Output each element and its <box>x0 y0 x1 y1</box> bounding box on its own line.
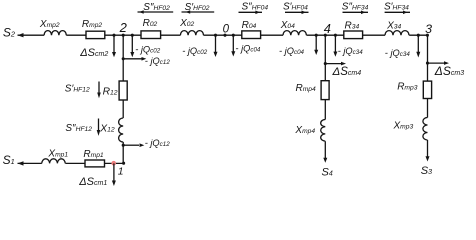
svg-text:Xmp4: Xmp4 <box>294 125 315 136</box>
resistor R12 <box>103 81 128 100</box>
wire: node 3 vertical branch <box>427 35 429 157</box>
node T junction c12 lower <box>122 144 125 147</box>
svg-text:- jQc02: - jQc02 <box>182 46 208 56</box>
arrow -jQc02 at node 0 end <box>182 34 217 57</box>
svg-text:Rmp3: Rmp3 <box>397 81 418 92</box>
label S''HF02 with left arrow <box>138 2 174 14</box>
node S3 load arrow <box>421 156 432 177</box>
svg-text:ΔScm2: ΔScm2 <box>79 47 108 59</box>
node 0 <box>223 23 230 36</box>
svg-text:R02: R02 <box>143 18 158 29</box>
label S''HF34 with right arrow <box>342 2 369 14</box>
svg-text:4: 4 <box>324 21 331 36</box>
arrow dScm2 <box>79 35 116 59</box>
resistor R34 <box>344 20 363 38</box>
svg-text:ΔScm3: ΔScm3 <box>434 64 464 78</box>
node S4 load arrow <box>322 158 333 179</box>
arrow -jQc02 at node 2 end <box>130 35 160 57</box>
svg-text:S″HF02: S″HF02 <box>143 2 170 13</box>
svg-text:R04: R04 <box>242 20 257 31</box>
svg-text:- jQc34: - jQc34 <box>338 46 364 56</box>
svg-text:X04: X04 <box>280 20 295 31</box>
svg-text:R12: R12 <box>103 86 118 97</box>
svg-text:ΔScm1: ΔScm1 <box>78 176 107 188</box>
wire: node 4 vertical branch <box>324 35 326 158</box>
svg-text:S1: S1 <box>3 153 15 167</box>
inductor X02 <box>179 18 203 35</box>
svg-text:Xmp3: Xmp3 <box>393 121 414 132</box>
resistor Rmp2 <box>82 19 105 39</box>
svg-text:2: 2 <box>119 20 128 35</box>
inductor X12 <box>99 118 123 142</box>
label S'HF04 with right arrow <box>283 2 309 14</box>
arrow -jQc34 at node 4 end <box>333 34 363 57</box>
node T junction cm3 <box>426 62 429 65</box>
svg-text:1: 1 <box>118 167 124 178</box>
inductor X34 <box>385 20 409 35</box>
node 1 red junction dot <box>111 161 116 166</box>
label S'HF02 with left arrow <box>182 2 215 14</box>
svg-text:0: 0 <box>223 23 230 35</box>
svg-text:- jQc02: - jQc02 <box>135 45 161 55</box>
inductor X04 <box>280 20 307 35</box>
svg-text:S″HF04: S″HF04 <box>242 2 269 13</box>
svg-text:S3: S3 <box>421 165 432 177</box>
svg-text:S″HF34: S″HF34 <box>342 2 369 13</box>
inductor Xmp1 <box>42 149 69 164</box>
inductor Xmp2 <box>39 19 66 35</box>
svg-text:S2: S2 <box>3 26 15 40</box>
node 3 <box>425 22 432 37</box>
inductor Xmp4 <box>294 120 325 142</box>
wire: node 2 vertical branch <box>122 35 124 163</box>
arrow -jQc12 upper <box>123 56 170 66</box>
resistor Rmp4 <box>296 81 330 100</box>
node S1 source arrow <box>3 153 24 167</box>
svg-text:- jQc04: - jQc04 <box>279 46 305 56</box>
svg-text:S4: S4 <box>322 167 333 179</box>
svg-text:Rmp1: Rmp1 <box>83 149 104 160</box>
svg-text:- jQc34: - jQc34 <box>385 48 411 58</box>
arrow -jQc34 at node 3 end <box>385 34 421 58</box>
resistor Rmp3 <box>397 81 431 98</box>
svg-text:Rmp2: Rmp2 <box>82 19 103 30</box>
node S2 source arrow <box>3 26 24 40</box>
svg-text:S′HF34: S′HF34 <box>384 2 409 13</box>
svg-text:3: 3 <box>425 22 432 36</box>
arrow dScm1 <box>78 163 116 188</box>
node 2 <box>112 20 133 37</box>
arrow dScm4 <box>325 62 361 78</box>
arrow -jQc04 at node 4 end <box>279 34 318 56</box>
svg-text:ΔScm4: ΔScm4 <box>332 66 362 78</box>
resistor R02 <box>141 18 161 38</box>
svg-text:X34: X34 <box>386 20 401 31</box>
node 4 <box>324 21 331 37</box>
arrow -jQc04 at node 0 end <box>231 34 261 57</box>
wire: bottom bus y=163.4 <box>18 162 124 164</box>
svg-text:S″HF12: S″HF12 <box>65 123 92 134</box>
svg-text:X12: X12 <box>99 124 115 135</box>
arrow dScm3 <box>428 61 465 78</box>
svg-text:R34: R34 <box>345 20 360 31</box>
label S''HF12 with down arrow <box>65 119 100 136</box>
label S'HF12 with down arrow <box>65 82 101 99</box>
node T junction c12 upper <box>122 57 125 60</box>
svg-text:Rmp4: Rmp4 <box>296 83 317 94</box>
resistor R04 <box>242 20 261 38</box>
svg-text:- jQc12: - jQc12 <box>145 138 171 148</box>
svg-text:Xmp2: Xmp2 <box>39 19 60 30</box>
svg-text:- jQc04: - jQc04 <box>235 44 261 54</box>
svg-text:S′HF12: S′HF12 <box>65 83 90 94</box>
svg-text:S′HF04: S′HF04 <box>283 2 308 13</box>
svg-text:- jQc12: - jQc12 <box>145 56 171 66</box>
resistor Rmp1 <box>83 149 104 167</box>
label S'HF34 with right arrow <box>384 2 410 14</box>
arrow -jQc12 lower <box>123 138 170 148</box>
inductor Xmp3 <box>393 118 428 141</box>
label S''HF04 with right arrow <box>239 2 269 14</box>
node T junction cm4 <box>324 62 327 65</box>
wire: main top bus y=35.2 <box>18 34 428 36</box>
svg-text:Xmp1: Xmp1 <box>47 149 68 160</box>
svg-text:X02: X02 <box>179 18 194 29</box>
node 1 corner junction <box>118 162 125 178</box>
